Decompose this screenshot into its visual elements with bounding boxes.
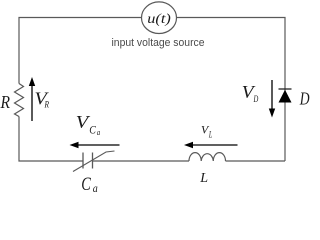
svg-text:R: R — [0, 92, 10, 112]
label V_L — [201, 123, 212, 140]
svg-text:L: L — [199, 171, 208, 186]
svg-text:C: C — [81, 174, 91, 192]
label V_R — [35, 89, 50, 111]
svg-text:R: R — [44, 100, 49, 110]
wire left-bottom segment — [19, 117, 83, 162]
wire top-right segment — [177, 18, 286, 162]
svg-text:input voltage source: input voltage source — [112, 37, 205, 49]
diode D — [279, 89, 292, 103]
arrow V_D (down) — [269, 80, 275, 118]
voltage source U1 circle — [142, 2, 177, 34]
svg-text:u(t): u(t) — [147, 12, 171, 27]
arrow V_Ca (left) — [70, 142, 120, 148]
arrow V_L (left) — [184, 142, 238, 148]
wire top-left segment — [19, 18, 142, 84]
resistor R — [15, 84, 24, 117]
wire bottom middle segment — [93, 160, 190, 162]
inductor L — [189, 153, 226, 161]
svg-text:a: a — [97, 128, 100, 137]
label V_Ca — [76, 112, 100, 137]
svg-text:D: D — [253, 94, 259, 104]
label C_a — [81, 174, 98, 195]
capacitor Ca (variable) — [73, 151, 115, 172]
svg-text:D: D — [299, 89, 310, 109]
wire bottom right segment — [226, 160, 286, 162]
label V_D — [242, 82, 259, 104]
svg-text:L: L — [208, 130, 212, 140]
svg-text:a: a — [93, 181, 98, 192]
svg-text:C: C — [89, 124, 96, 136]
arrow V_R (up) — [29, 77, 35, 121]
